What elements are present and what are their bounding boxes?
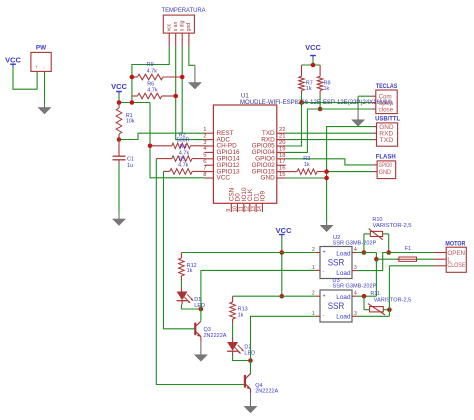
wire rail1 R12 to U2 pin2 — [181, 252, 316, 254]
wire TECLAS Com to ground — [358, 96, 371, 99]
wire VCC net to U1 VCC pin8 — [150, 103, 205, 178]
ground (GND net) — [320, 222, 332, 232]
svg-text:2N2222A: 2N2222A — [204, 333, 227, 339]
svg-text:gnd: gnd — [186, 23, 192, 32]
wire Q3 emitter to ground — [200, 341, 202, 355]
svg-text:GND: GND — [379, 125, 394, 131]
pin label s an (rotated) — [173, 22, 179, 32]
svg-text:17: 17 — [279, 159, 285, 165]
svg-text:Load: Load — [336, 294, 351, 301]
varistor R11 labels — [370, 291, 411, 303]
wire U1 TXD to USB RXD — [286, 132, 373, 134]
wire temp vcc to VCC rail — [132, 46, 169, 102]
pin stub gnd — [188, 33, 190, 46]
svg-text:1: 1 — [203, 127, 206, 133]
svg-text:4: 4 — [203, 146, 207, 152]
junction VCC split — [311, 63, 316, 68]
VCC symbol (PW) — [5, 56, 21, 67]
junction R9 left — [130, 75, 135, 80]
relay U2 texts — [323, 250, 351, 277]
junction R6 right on s an — [173, 94, 178, 99]
fuse F1 — [376, 257, 434, 261]
U2 pin 4 — [352, 247, 357, 253]
svg-text:19: 19 — [279, 146, 285, 152]
wire U1 GND to gnd net — [286, 177, 327, 179]
svg-text:14: 14 — [257, 206, 263, 212]
svg-text:D1: D1 — [194, 297, 201, 303]
header TEMPERATURA label — [162, 7, 207, 14]
wire VCC to PW pin + — [13, 67, 37, 90]
header FLASH label — [376, 154, 396, 161]
svg-text:500R: 500R — [177, 137, 190, 143]
VCC symbol (left rail) — [111, 82, 127, 94]
svg-text:4.7k: 4.7k — [147, 68, 158, 74]
ground (Q3) — [195, 355, 207, 361]
relay U3 box — [320, 290, 352, 322]
svg-text:20: 20 — [279, 140, 285, 146]
resistor R5 (GPIO13) — [164, 169, 205, 175]
header TEMPERATURA box — [163, 15, 194, 33]
resistor R8 — [317, 65, 323, 109]
LED D2 — [227, 338, 244, 355]
VCC symbol (top right) — [305, 43, 321, 58]
header USB/TTL box — [377, 123, 398, 146]
U1 pin 10 D0 — [232, 193, 241, 212]
svg-text:3: 3 — [354, 311, 357, 317]
wire R4 to Q4 base — [156, 159, 244, 385]
header MOTOR label — [445, 241, 465, 248]
MOTOR pin CLOSE — [434, 262, 465, 269]
wire line net down to U3 pin4 — [357, 259, 377, 296]
svg-text:10: 10 — [232, 206, 238, 212]
pin stub s dig — [181, 33, 183, 46]
transistor Q4 — [245, 361, 251, 394]
relay U3 name — [332, 278, 339, 284]
wire close to GPIO04 — [286, 109, 372, 152]
pin label vcc (rotated) — [166, 23, 172, 31]
resistor R3 — [286, 169, 327, 175]
ground (TEMPERATURA) — [189, 65, 201, 89]
svg-text:-: - — [43, 65, 45, 70]
header TECLAS box — [376, 90, 397, 114]
svg-text:10k: 10k — [126, 119, 135, 125]
svg-text:Com: Com — [379, 95, 392, 101]
svg-text:PW: PW — [36, 45, 46, 52]
svg-text:USB/TTL: USB/TTL — [375, 116, 400, 123]
U1 pin 9 CSN — [226, 187, 235, 212]
svg-text:F1: F1 — [405, 246, 411, 252]
junction D1-Q3 collector — [199, 307, 204, 312]
wire rail2 R13 to U3 pin2 — [233, 295, 316, 297]
varistor R11 — [364, 296, 389, 315]
header FLASH box — [377, 161, 396, 179]
wire temp gnd to ground — [189, 46, 195, 65]
wire VCC left rail — [119, 94, 150, 103]
U1 pin 4 GPIO16 — [203, 146, 240, 156]
ground (PW) — [38, 103, 50, 114]
svg-text:2: 2 — [203, 133, 206, 139]
svg-text:1: 1 — [312, 265, 315, 271]
wire junction to U3 pin1 — [251, 316, 316, 360]
wire junction to U2 pin1 — [201, 270, 316, 309]
svg-text:3: 3 — [354, 265, 357, 271]
USB/TTL pin GND — [373, 125, 394, 131]
resistor R12 labels — [187, 263, 197, 274]
svg-text:VCC: VCC — [276, 226, 292, 235]
resistor R6 — [132, 93, 176, 99]
svg-text:9: 9 — [226, 209, 232, 212]
svg-text:Load: Load — [336, 314, 351, 321]
U1 pin 21 RXD — [261, 134, 285, 144]
svg-text:3: 3 — [203, 140, 206, 146]
junction R11 right — [387, 307, 392, 312]
svg-text:TECLAS: TECLAS — [376, 83, 398, 90]
svg-text:6: 6 — [203, 159, 206, 165]
pin label gnd (rotated) — [186, 23, 192, 32]
junction VCC-R1 — [117, 100, 122, 105]
capacitor C1 — [113, 140, 126, 164]
junction D2-Q4 collector — [248, 358, 253, 363]
USB/TTL pin RXD — [373, 132, 394, 138]
svg-text:1k: 1k — [324, 86, 330, 92]
module U1 name — [241, 93, 249, 99]
resistor R7 — [299, 65, 305, 103]
U1 pin 2 ADC — [203, 133, 230, 143]
wire D2 cathode to junction — [233, 355, 251, 361]
wire U3 pin3 to motor CLOSE — [357, 266, 434, 317]
transistor Q4 labels — [255, 383, 278, 395]
svg-text:5: 5 — [203, 153, 206, 159]
svg-text:2: 2 — [312, 247, 315, 253]
svg-text:VCC: VCC — [111, 82, 127, 91]
resistor R13 labels — [238, 307, 248, 319]
svg-text:4: 4 — [354, 290, 357, 296]
U1 pin 17 GPIO02 — [252, 159, 286, 169]
junction R9 right on s dig — [180, 75, 185, 80]
U1 pin 8 VCC — [203, 172, 230, 182]
power connector PW box — [31, 52, 51, 71]
TECLAS pin open — [371, 101, 393, 107]
ground (TECLAS Com) — [352, 99, 364, 126]
junction VCC rail2 — [280, 294, 285, 299]
junction R10 left — [362, 250, 367, 255]
transistor Q3 — [195, 309, 201, 341]
U2 pin 2 — [312, 247, 320, 253]
resistor R9 — [132, 74, 182, 80]
svg-text:4.7k: 4.7k — [147, 88, 158, 94]
svg-text:1k: 1k — [304, 162, 310, 168]
capacitor C1 labels — [127, 157, 134, 170]
wire C1 to ground — [118, 163, 120, 213]
svg-text:VCC: VCC — [217, 175, 231, 182]
relay U2 value — [333, 241, 377, 247]
svg-text:open: open — [379, 101, 394, 107]
resistor R7 labels — [306, 80, 313, 92]
svg-text:SSR G3MB-202P: SSR G3MB-202P — [333, 241, 377, 247]
module U1 title — [240, 99, 392, 106]
svg-text:1: 1 — [312, 311, 315, 317]
junction R8-close — [318, 107, 323, 112]
U1 pin 13 D1 — [251, 193, 260, 212]
U3 pin 4 — [352, 290, 357, 296]
wire temp s an to U1 ADC — [176, 46, 205, 139]
svg-text:VCC: VCC — [305, 43, 321, 52]
wire D1 cathode to junction — [181, 305, 201, 310]
svg-text:SSR G3MB-202P: SSR G3MB-202P — [333, 283, 377, 289]
svg-text:+: + — [323, 293, 326, 299]
svg-text:15: 15 — [279, 172, 285, 178]
U1 pin 6 GPIO12 — [203, 159, 240, 169]
svg-text:s an: s an — [173, 22, 179, 32]
U1 pin 15 GND — [260, 172, 285, 182]
svg-text:FLASH: FLASH — [376, 154, 396, 161]
U1 pin 14 IO9 — [257, 191, 266, 213]
svg-text:close: close — [379, 107, 394, 113]
pin stub s an — [175, 33, 177, 46]
pin label s dig (rotated) — [179, 20, 185, 31]
U1 pin 19 GPIO04 — [252, 146, 286, 156]
svg-text:VCC: VCC — [5, 56, 21, 65]
relay U3 value — [333, 283, 377, 289]
wire U1 RXD to USB TXD — [286, 139, 373, 141]
U1 pin 18 GPIO0 — [255, 153, 285, 163]
U1 pin 12 CLK — [245, 188, 254, 212]
header TECLAS label — [376, 83, 398, 90]
svg-text:-: - — [323, 313, 325, 319]
resistor R1 — [116, 103, 122, 140]
svg-text:R4: R4 — [180, 144, 187, 150]
svg-text:7: 7 — [203, 165, 206, 171]
wire PW pin - to ground — [44, 72, 46, 103]
varistor R10 labels — [372, 217, 411, 229]
svg-text:GPIO0: GPIO0 — [379, 163, 393, 169]
svg-text:SSR: SSR — [328, 301, 345, 312]
wire VCC down to rails — [281, 237, 283, 296]
svg-text:1k: 1k — [238, 313, 244, 319]
svg-text:2: 2 — [312, 290, 315, 296]
resistor R2 (500R to CH-PD) — [150, 143, 205, 149]
svg-text:R9: R9 — [147, 62, 154, 68]
MOTOR pin OPEN — [434, 250, 465, 257]
wire U2 pin4 line net — [357, 253, 377, 260]
TECLAS pin close — [371, 107, 393, 113]
U1 pin 3 CH-PD — [203, 140, 237, 150]
resistor R12 — [179, 253, 185, 288]
wire VCC to R7 R8 — [302, 58, 321, 65]
wire temp s dig down — [181, 46, 183, 133]
wire U2 pin3 to motor OPEN — [357, 253, 434, 271]
MOTOR pin L — [434, 256, 451, 263]
junction R1 bottom — [117, 137, 122, 142]
U3 pin 2 — [312, 290, 320, 296]
U3 pin 1 — [312, 311, 320, 317]
U1 pin 5 GPIO14 — [203, 153, 240, 163]
resistor R4 (GPIO14) — [156, 156, 204, 162]
U1 pin 1 REST — [203, 127, 233, 137]
resistor R5 labels — [178, 156, 189, 168]
junction U3 pin4 — [362, 294, 367, 299]
svg-text:1k: 1k — [306, 86, 312, 92]
svg-text:VARISTOR-2,5: VARISTOR-2,5 — [373, 223, 412, 229]
svg-text:8: 8 — [203, 172, 206, 178]
junction R10 right — [386, 250, 391, 255]
header MOTOR box — [446, 247, 466, 272]
svg-text:LED: LED — [244, 351, 255, 357]
svg-text:+: + — [323, 250, 326, 256]
VCC symbol (SSR rail) — [276, 226, 292, 237]
power connector PW label — [36, 45, 46, 52]
svg-text:MOTOR: MOTOR — [445, 241, 465, 248]
svg-text:13: 13 — [251, 206, 257, 212]
U1 pin 16 GPIO15 — [252, 166, 286, 176]
svg-text:GND: GND — [379, 170, 392, 176]
svg-text:CLOSE: CLOSE — [447, 262, 465, 269]
resistor R1 labels — [126, 113, 135, 125]
U1 pin 22 TXD — [262, 127, 286, 137]
wire Q4 emitter to ground — [250, 393, 252, 406]
module U1 box — [213, 105, 276, 203]
relay U2 name — [333, 235, 340, 241]
svg-text:RXD: RXD — [379, 132, 394, 138]
resistor R3 labels — [303, 156, 310, 168]
svg-text:21: 21 — [279, 134, 285, 140]
pin stub vcc — [168, 33, 170, 46]
svg-text:22: 22 — [279, 127, 285, 133]
svg-text:-: - — [323, 268, 325, 274]
wire R5 to Q3 base — [164, 171, 195, 328]
resistor R2 labels — [177, 132, 190, 143]
wire U1 GPIO0 to FLASH — [286, 159, 373, 165]
svg-text:SSR: SSR — [328, 257, 345, 268]
svg-text:TXD: TXD — [379, 138, 394, 144]
svg-text:1k: 1k — [187, 268, 193, 274]
wire open to GPIO05 — [286, 103, 372, 146]
resistor R13 — [230, 296, 236, 338]
junction VCC-pullup column — [130, 100, 135, 105]
LED D1 — [177, 288, 194, 305]
wire FLASH GND to gnd net — [327, 171, 373, 173]
resistor R8 labels — [324, 80, 331, 92]
relay U2 box — [320, 247, 352, 279]
junction R7-open — [299, 100, 304, 105]
wire R1 to U1 REST — [119, 133, 205, 139]
svg-text:VARISTOR-2,5: VARISTOR-2,5 — [374, 297, 412, 303]
svg-text:4.7k: 4.7k — [178, 162, 189, 168]
svg-text:R11: R11 — [370, 291, 380, 297]
svg-text:C1: C1 — [127, 157, 134, 163]
U1 pin 11 IO10 — [239, 187, 248, 212]
svg-text:TEMPERATURA: TEMPERATURA — [162, 7, 207, 14]
svg-text:s dig: s dig — [179, 20, 185, 31]
svg-text:Load: Load — [336, 270, 351, 277]
USB/TTL pin TXD — [373, 138, 394, 144]
ground (C1) — [113, 213, 125, 226]
TECLAS pin Com — [371, 95, 391, 101]
U1 pin 7 GPIO13 — [203, 165, 240, 175]
U2 pin 1 — [312, 265, 320, 271]
transistor Q3 labels — [204, 327, 227, 339]
FLASH pin GPIO0 — [373, 163, 393, 169]
ground (Q4) — [244, 406, 256, 412]
junction VCC-R2 — [148, 144, 153, 149]
junction GND net — [324, 176, 329, 181]
svg-text:2N2222A: 2N2222A — [255, 389, 278, 395]
svg-text:4: 4 — [354, 247, 357, 253]
svg-text:+: + — [35, 65, 38, 70]
svg-text:IO9: IO9 — [260, 191, 267, 202]
svg-text:12: 12 — [245, 206, 251, 212]
junction line-fuse — [374, 257, 379, 262]
fuse F1 label — [405, 246, 411, 252]
wire USB GND to gnd net — [327, 127, 373, 222]
U2 pin 3 — [352, 265, 357, 271]
svg-text:16: 16 — [279, 166, 285, 172]
LED D1 labels — [194, 297, 205, 309]
resistor R6 labels — [147, 82, 158, 94]
U1 pin 20 GPIO05 — [252, 140, 286, 150]
LED D2 labels — [244, 344, 255, 356]
svg-text:GND: GND — [260, 175, 275, 182]
junction R3-FLASH GND — [324, 169, 329, 174]
relay U3 texts — [323, 293, 351, 320]
svg-text:1u: 1u — [127, 163, 133, 169]
varistor R10 — [364, 229, 389, 253]
svg-text:vcc: vcc — [166, 23, 172, 31]
FLASH pin GND — [373, 170, 392, 176]
resistor R9 labels — [147, 62, 158, 74]
junction VCC rail1 — [280, 250, 285, 255]
svg-text:18: 18 — [279, 153, 285, 159]
U3 pin 3 — [352, 311, 357, 317]
header USB/TTL label — [375, 116, 400, 123]
resistor R4 labels — [179, 144, 190, 156]
